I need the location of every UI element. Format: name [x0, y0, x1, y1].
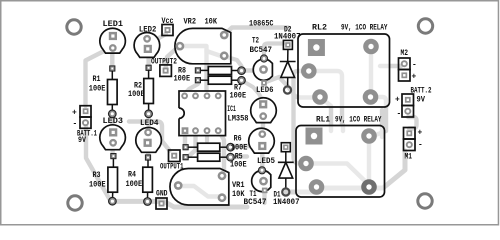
wire IC1 pin2 to R5 left — [189, 131, 196, 156]
svg-text:LED1: LED1 — [103, 19, 124, 29]
wire IC1 to VR1 top-right pad — [219, 131, 224, 175]
LED LED1 — [100, 28, 126, 53]
mounting hole bottom-left — [68, 196, 82, 210]
wire R2 to LED4 — [146, 114, 150, 132]
diode D2 — [280, 40, 296, 93]
wire R1 to LED3 — [110, 114, 114, 132]
svg-text:RL1: RL1 — [316, 115, 330, 125]
wire IC1 pin stub down — [205, 131, 209, 141]
wire RL2 to M2 — [380, 64, 401, 68]
svg-text:GND: GND — [156, 190, 168, 199]
svg-text:VR2: VR2 — [184, 17, 197, 27]
wire IC1 pin1 to R6 left — [183, 131, 187, 146]
wire VR2 wiper to OUTPUT2 — [166, 47, 179, 69]
svg-text:1N4007: 1N4007 — [273, 197, 300, 207]
wire LED5 to T1 — [260, 146, 264, 170]
svg-text:M1: M1 — [405, 153, 413, 162]
wire R7 left pad to IC1 pin — [185, 81, 198, 95]
wire RL2 bottom-right pad to RL1 top-right pad — [371, 97, 387, 136]
svg-text:10865C: 10865C — [249, 19, 274, 29]
wire LED1 to R1 — [110, 47, 114, 68]
svg-text:BC547: BC547 — [244, 197, 267, 207]
wire R6 right stub — [231, 144, 251, 148]
mounting hole top-left — [67, 20, 81, 34]
svg-text:1N4007: 1N4007 — [274, 32, 301, 42]
resistor R1 — [108, 66, 118, 118]
potentiometer VR2 — [175, 28, 231, 63]
svg-text:OUTPUT1: OUTPUT1 — [160, 163, 184, 172]
svg-text:+: + — [72, 109, 77, 118]
wire T2 via D2 to RL2 bottom-left pad — [266, 77, 313, 98]
IC U1 LM358 — [178, 91, 226, 136]
wire bottom bus GND — [112, 201, 247, 207]
wire bus under LED3 LED4 to OUTPUT1 — [129, 122, 170, 151]
wire LED2 to R2 — [146, 52, 150, 67]
svg-text:LED5: LED5 — [257, 156, 275, 166]
wire VR2 bottom-right pad to R8 right — [225, 57, 242, 71]
svg-text:BATT.2: BATT.2 — [411, 87, 432, 96]
resistor R4 — [143, 155, 153, 205]
wire VR2 top-right pad to top bus — [224, 28, 288, 36]
connector M2 — [399, 58, 411, 81]
svg-text:R1: R1 — [93, 74, 101, 84]
svg-text:RL2: RL2 — [312, 23, 327, 33]
svg-text:R3: R3 — [93, 170, 101, 180]
wire RL2 area down to RL1 mid-left pad — [294, 71, 305, 163]
connector BATT.1 — [80, 106, 91, 129]
connector Vcc — [162, 25, 173, 36]
LED LED2 — [134, 33, 160, 58]
LED LED6 — [251, 98, 277, 123]
svg-text:9V, 1CO RELAY: 9V, 1CO RELAY — [341, 23, 388, 33]
wire R7 right to LED6 — [242, 80, 263, 100]
wire left of M1 — [380, 110, 384, 137]
svg-text:OUTPUT2: OUTPUT2 — [151, 58, 177, 67]
svg-text:BC547: BC547 — [250, 45, 273, 55]
wire gap verticals into RL1 — [331, 125, 343, 131]
svg-text:+: + — [418, 129, 423, 138]
svg-text:100E: 100E — [230, 91, 247, 101]
wire Vcc to LED2 — [150, 34, 166, 43]
svg-text:LED4: LED4 — [140, 118, 159, 128]
wire RL2 internal vertical to RL1 — [313, 71, 342, 125]
wire VR1 internal — [178, 186, 218, 197]
wire LED3 to R3 — [110, 143, 114, 156]
resistor R5 — [183, 153, 234, 161]
potentiometer VR1 — [170, 169, 229, 206]
svg-text:LM358: LM358 — [228, 114, 249, 124]
svg-text:9V: 9V — [417, 96, 426, 105]
wire BATT.2 down right — [408, 117, 417, 129]
transistor T1 — [252, 167, 271, 194]
svg-text:Vcc: Vcc — [162, 17, 174, 26]
svg-text:100E: 100E — [89, 84, 106, 94]
wire RL2 bottom-left pad down to RL1 — [320, 97, 331, 125]
wire RL2 top-right pad to bottom-right pad — [369, 51, 373, 92]
wire D1 to RL1 bottom-left pad — [286, 190, 316, 195]
mounting hole top-right — [418, 19, 432, 33]
wire RL1 bottom-left pad to bottom-right pad — [317, 186, 370, 191]
wire T1 bottom stub — [262, 190, 266, 203]
wire RL1 mid-left pad to bottom-right pad — [306, 164, 367, 184]
svg-text:LED6: LED6 — [256, 85, 274, 95]
resistor R2 — [144, 65, 154, 117]
svg-text:LED2: LED2 — [139, 25, 157, 35]
relay RL2 — [298, 34, 390, 107]
svg-text:9V, 1CO RELAY: 9V, 1CO RELAY — [335, 115, 382, 125]
LED LED5 — [249, 128, 275, 153]
svg-text:+: + — [395, 96, 400, 105]
resistor R3 — [108, 154, 118, 206]
svg-text:100E: 100E — [126, 179, 143, 189]
diode D1 — [278, 143, 294, 196]
wire LED4 to R4 — [146, 146, 150, 157]
svg-text:-: - — [397, 110, 402, 119]
svg-text:100E: 100E — [128, 89, 145, 99]
wire R5 right stub — [231, 154, 247, 158]
relay RL1 — [296, 126, 385, 198]
svg-text:10K: 10K — [205, 17, 218, 27]
transistor T2 — [253, 55, 272, 86]
wire LED1 to BATT.1 plus — [86, 49, 109, 106]
wire T2 top to D2 pad — [264, 44, 283, 57]
svg-text:IC1: IC1 — [227, 104, 236, 114]
wire VR2 internal to IC1 — [180, 46, 207, 92]
LED LED4 — [136, 127, 162, 152]
wire VR2 spur to bottom-right pad — [207, 51, 222, 56]
svg-text:+: + — [412, 73, 417, 82]
LED LED3 — [100, 125, 126, 150]
svg-text:100E: 100E — [230, 159, 247, 169]
resistor R6 — [183, 143, 234, 151]
wire BATT.1 minus to R3 bottom — [86, 123, 110, 200]
connector BATT.2 — [402, 94, 414, 117]
svg-text:100E: 100E — [89, 180, 106, 190]
resistor R7 — [195, 76, 245, 84]
svg-text:-: - — [418, 141, 423, 150]
svg-text:100E: 100E — [174, 73, 191, 83]
wire RL1 top-right pad to bottom-right pad — [367, 141, 371, 181]
connector OUTPUT2 — [160, 65, 172, 77]
svg-text:-: - — [73, 120, 78, 129]
svg-text:9V: 9V — [78, 136, 86, 145]
connector M1 — [404, 128, 416, 151]
wire R8 right to T2 — [242, 68, 255, 72]
resistor R8 — [195, 67, 245, 75]
svg-text:-: - — [412, 61, 417, 70]
wire LED6 to LED5 — [261, 116, 265, 131]
mounting hole bottom-right — [418, 194, 432, 208]
svg-text:M2: M2 — [401, 49, 409, 58]
wire RL1 bottom-right pad to M1 area — [369, 151, 405, 188]
connector OUTPUT1 — [169, 150, 181, 162]
connector GND — [156, 198, 167, 209]
